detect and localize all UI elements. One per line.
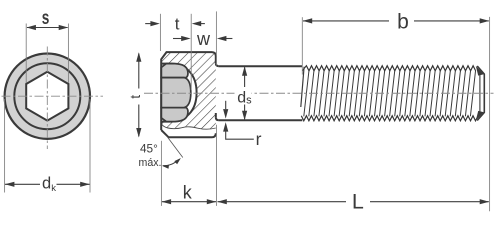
45 deg angle arc with arrows <box>163 159 180 165</box>
head chamfer inner circle <box>14 63 80 129</box>
svg-text:w: w <box>196 29 211 49</box>
tip end inner line <box>479 75 481 113</box>
svg-text:dk: dk <box>42 174 56 193</box>
svg-text:L: L <box>352 189 364 213</box>
dimension dk line with arrows <box>5 183 40 185</box>
head end view outer circle (dk diameter) <box>5 53 90 138</box>
vertical centerline (end view) <box>46 47 48 150</box>
socket hex walls: top band <box>161 64 188 78</box>
svg-text:45°: 45° <box>140 141 158 155</box>
dimension s extension lines <box>25 24 27 84</box>
broken-out section wavy boundary <box>161 124 216 130</box>
45 deg chamfer leader line <box>168 138 183 158</box>
socket hex walls: middle band <box>161 78 191 108</box>
right extension line (screw tip) <box>489 17 491 211</box>
dimension w arrows <box>173 38 182 40</box>
thread runout at start <box>301 67 304 107</box>
under-head fillet top <box>216 63 219 66</box>
tip chamfer dark corners <box>476 66 484 76</box>
thread crest zigzag top <box>302 66 475 71</box>
dimension w extension line <box>215 11 217 65</box>
svg-text:b: b <box>397 10 409 33</box>
svg-text:t: t <box>127 95 143 99</box>
dimension k extension lines <box>160 141 162 206</box>
dimension ds line and arrows <box>244 67 246 87</box>
vertical head-height dimension (rotated t) arrows <box>138 54 140 89</box>
under-head fillet bottom <box>216 117 219 120</box>
thread crest zigzag bottom <box>301 116 478 121</box>
socket cavity outline (section) <box>161 64 196 122</box>
dimension dk extension lines <box>4 99 6 193</box>
r leader line <box>226 130 254 139</box>
dimension t extension lines <box>159 14 161 51</box>
dimension L line with arrows <box>218 201 347 203</box>
dimension b line with arrows <box>303 20 389 22</box>
plain shank bottom edge <box>219 119 302 121</box>
tip chamfer top <box>477 66 484 121</box>
thread helix flank lines <box>304 70 476 116</box>
plain shank top edge <box>219 65 302 67</box>
dimension s line with arrows <box>27 27 68 29</box>
horizontal centerline (end view) <box>2 95 104 97</box>
svg-text:s: s <box>42 7 50 29</box>
svg-text:t: t <box>175 15 180 34</box>
svg-text:k: k <box>183 182 193 202</box>
svg-text:r: r <box>256 129 262 149</box>
dimension k line with arrows <box>162 201 216 203</box>
fillet r pinch arrows <box>225 101 227 109</box>
side view centerline <box>144 92 494 94</box>
dimension t arrows <box>145 23 150 25</box>
dimension b extension line <box>301 17 303 74</box>
head bottom edge and chamfer <box>161 130 216 137</box>
hex socket (end view) <box>26 72 68 121</box>
head outline <box>161 52 216 130</box>
socket hex walls: bottom band <box>161 108 188 122</box>
svg-text:máx.: máx. <box>139 157 162 169</box>
